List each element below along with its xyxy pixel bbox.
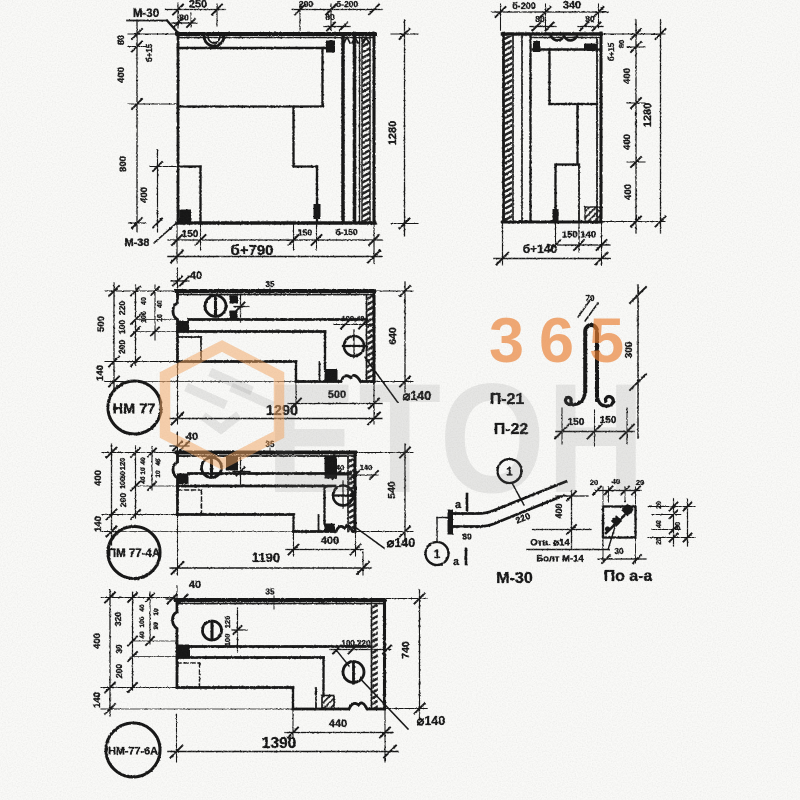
watermark beton365: [165, 306, 647, 525]
hairpin P-21/P-22: [490, 285, 646, 446]
label M-30 with leader: [127, 8, 167, 21]
dims 200 / b-200 top: [292, 0, 382, 31]
right dim column row1-right: [601, 20, 666, 233]
section HM 77: [173, 280, 431, 403]
joint lines right: [341, 35, 345, 222]
section Po a-a bolt: [590, 477, 695, 585]
panel section top-right: [503, 33, 602, 222]
bottom dims row1-right: [494, 222, 610, 265]
dims HM77: [95, 268, 413, 425]
lifting loop right panel: [551, 36, 577, 40]
dims HM-77-6A: [92, 579, 427, 762]
left dim column row1: [116, 20, 178, 232]
dim 80 top-left: [172, 13, 197, 28]
right dim 1280 row1-left: [387, 20, 418, 236]
detail M-30 bent anchor: [426, 459, 610, 587]
section PM 77-4A: [173, 440, 415, 550]
hole o140 row3: [333, 486, 353, 506]
label circle HM-77-6A: [106, 723, 160, 777]
label circle HM 77: [108, 381, 161, 434]
dims PM77-4A: [93, 431, 413, 575]
svg-text:ЕТОН: ЕТОН: [266, 351, 647, 525]
panel section top-left: [167, 21, 375, 224]
rebar mark 1 ballooned: [205, 296, 226, 317]
section HM-77-6A: [173, 588, 446, 730]
anchor plate M-38: [180, 210, 192, 222]
svg-text:365: 365: [489, 306, 639, 376]
top dims right panel: [492, 0, 608, 31]
logo hexagon: [165, 346, 279, 464]
dim 250 top: [165, 0, 225, 28]
hole o140: [344, 336, 364, 356]
lifting loop: [204, 36, 224, 46]
bottom dims row1-left: [124, 219, 382, 263]
hole o140 row4: [343, 662, 364, 683]
label circle PM 77-4A: [108, 527, 160, 579]
